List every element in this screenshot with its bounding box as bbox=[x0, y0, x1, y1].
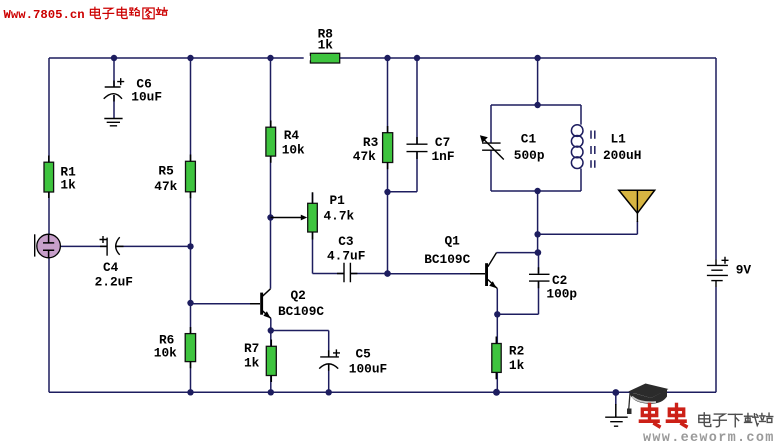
svg-text:10uF: 10uF bbox=[131, 90, 162, 105]
svg-text:47k: 47k bbox=[353, 149, 376, 164]
svg-text:C7: C7 bbox=[435, 135, 450, 150]
svg-text:C3: C3 bbox=[338, 234, 354, 249]
svg-text:L1: L1 bbox=[611, 132, 627, 147]
svg-text:1k: 1k bbox=[318, 38, 334, 53]
svg-text:BC109C: BC109C bbox=[278, 304, 324, 319]
svg-text:Q1: Q1 bbox=[445, 234, 461, 249]
svg-text:R2: R2 bbox=[509, 344, 524, 359]
svg-text:C5: C5 bbox=[356, 347, 372, 362]
svg-text:C4: C4 bbox=[103, 260, 119, 275]
svg-text:P1: P1 bbox=[330, 193, 346, 208]
svg-text:www.eeworm.com: www.eeworm.com bbox=[643, 431, 775, 443]
svg-text:4.7k: 4.7k bbox=[324, 209, 355, 224]
svg-text:500p: 500p bbox=[514, 148, 545, 163]
svg-text:1k: 1k bbox=[509, 358, 525, 373]
svg-text:2.2uF: 2.2uF bbox=[95, 275, 133, 290]
svg-text:100p: 100p bbox=[546, 287, 577, 302]
svg-text:R7: R7 bbox=[244, 341, 259, 356]
svg-text:100uF: 100uF bbox=[349, 361, 387, 376]
svg-text:47k: 47k bbox=[154, 179, 177, 194]
svg-text:1k: 1k bbox=[244, 356, 260, 371]
svg-text:4.7uF: 4.7uF bbox=[327, 248, 365, 263]
svg-text:9V: 9V bbox=[736, 262, 752, 277]
svg-text:C1: C1 bbox=[521, 132, 537, 147]
svg-text:1k: 1k bbox=[60, 178, 76, 193]
svg-text:R3: R3 bbox=[363, 135, 379, 150]
svg-text:BC109C: BC109C bbox=[424, 252, 470, 267]
svg-text:10k: 10k bbox=[154, 345, 177, 360]
svg-text:R5: R5 bbox=[158, 163, 174, 178]
svg-text:R4: R4 bbox=[284, 128, 300, 143]
svg-text:Www.7805.cn: Www.7805.cn bbox=[4, 8, 85, 22]
svg-text:1nF: 1nF bbox=[432, 149, 455, 164]
svg-text:200uH: 200uH bbox=[603, 148, 641, 163]
svg-text:Q2: Q2 bbox=[291, 288, 306, 303]
svg-text:10k: 10k bbox=[282, 143, 305, 158]
